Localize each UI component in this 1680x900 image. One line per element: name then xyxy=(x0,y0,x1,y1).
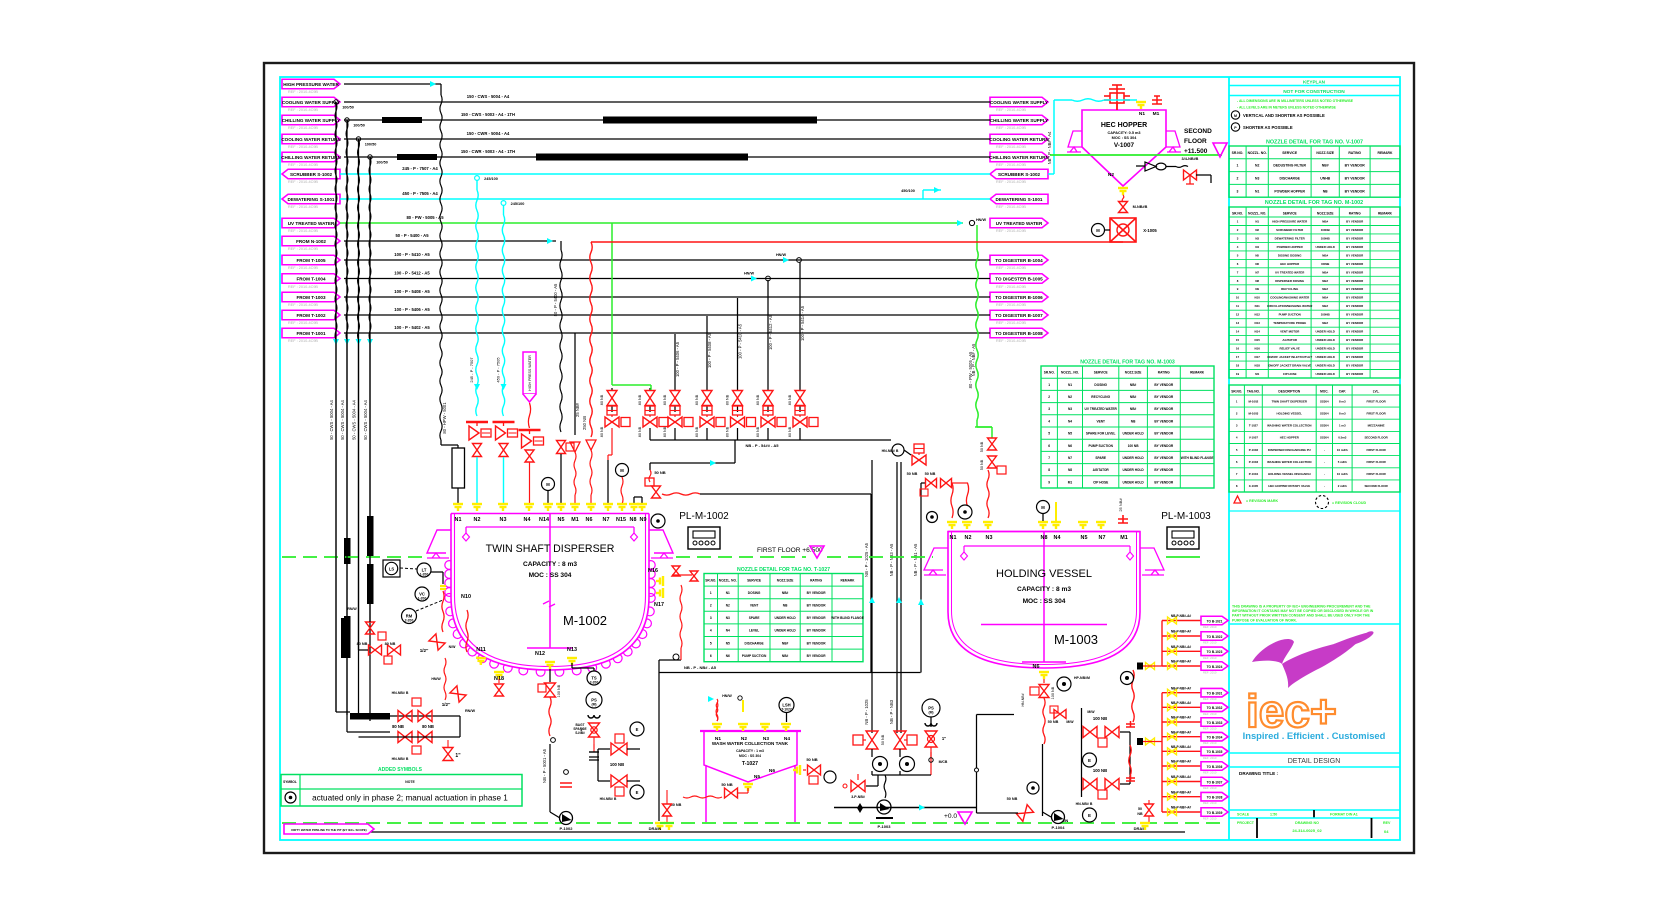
stack feeder flex hoses xyxy=(1126,721,1135,727)
svg-text:M: M xyxy=(620,468,624,473)
nozzle N16 N17 xyxy=(656,576,663,586)
svg-text:N16: N16 xyxy=(648,568,658,574)
svg-text:N8: N8 xyxy=(1255,279,1259,283)
svg-text:NB - P - NB3: NB - P - NB3 xyxy=(889,699,894,724)
svg-text:+0.0: +0.0 xyxy=(944,813,957,820)
svg-text:REF: 2010: REF: 2010 xyxy=(1203,771,1217,775)
svg-text:NB - P - NB# - A5: NB - P - NB# - A5 xyxy=(684,665,717,670)
svg-text:AGITATOR: AGITATOR xyxy=(1282,338,1298,342)
svg-text:P-1002: P-1002 xyxy=(560,826,574,831)
svg-text:P-1004: P-1004 xyxy=(1249,472,1259,476)
svg-text:LS: LS xyxy=(389,567,395,572)
svg-text:BY VENDOR: BY VENDOR xyxy=(1154,444,1174,448)
pump P-1002 xyxy=(560,812,573,825)
svg-text:DISCHARGE: DISCHARGE xyxy=(1280,177,1301,181)
svg-text:1 m3: 1 m3 xyxy=(1339,424,1346,428)
svg-text:NB#: NB# xyxy=(1130,395,1137,399)
svg-text:LVL.: LVL. xyxy=(1373,390,1380,394)
svg-text:N3: N3 xyxy=(1068,407,1072,411)
svg-text:N4: N4 xyxy=(726,629,730,633)
svg-text:TO B-1023: TO B-1023 xyxy=(1207,650,1223,654)
svg-text:HN-NB# B: HN-NB# B xyxy=(1076,802,1093,806)
hopper dust filter xyxy=(1104,85,1130,110)
line FROM T-1004 xyxy=(344,278,990,280)
svg-text:WITH BLIND FLANGE: WITH BLIND FLANGE xyxy=(1181,456,1214,460)
svg-text:= REVISION CLOUD: = REVISION CLOUD xyxy=(1332,501,1366,505)
svg-text:SR.NO.: SR.NO. xyxy=(1044,371,1055,375)
line label TO DIGESTER B-1005 (right) xyxy=(990,274,1048,284)
svg-text:BY VENDOR: BY VENDOR xyxy=(1346,330,1364,334)
svg-text:N6: N6 xyxy=(1068,444,1072,448)
svg-text:N3: N3 xyxy=(1255,236,1259,240)
svg-text:4: 4 xyxy=(1048,419,1050,423)
svg-text:CIRCULATION/WASHING WATER: CIRCULATION/WASHING WATER xyxy=(1267,304,1313,308)
svg-text:RN/W: RN/W xyxy=(347,607,357,611)
svg-text:10 m3/h: 10 m3/h xyxy=(1337,472,1348,476)
svg-text:NB#: NB# xyxy=(1322,287,1328,291)
nozzle M1 M-1002 xyxy=(570,504,580,511)
svg-text:SR.NO.: SR.NO. xyxy=(1232,151,1244,155)
svg-text:150 - CWS - 5003 - A4 - 1TH: 150 - CWS - 5003 - A4 - 1TH xyxy=(461,112,515,117)
red line rotary valve to disperser xyxy=(591,241,1123,243)
green riser x=977 xyxy=(976,225,978,250)
svg-text:-: - xyxy=(1324,460,1325,464)
stack row L2 xyxy=(1162,706,1201,708)
svg-text:= REVISION MARK: = REVISION MARK xyxy=(1246,499,1278,503)
svg-text:04: 04 xyxy=(1384,829,1389,834)
svg-text:REF: 2010: REF: 2010 xyxy=(1203,656,1217,660)
nozzle N8 M-1003 xyxy=(1038,522,1048,529)
svg-text:T-1027: T-1027 xyxy=(781,708,792,712)
svg-text:NB#: NB# xyxy=(1322,270,1328,274)
svg-text:HN-NB#: HN-NB# xyxy=(1021,693,1025,706)
svg-text:CAPACITY: 0.5 m3: CAPACITY: 0.5 m3 xyxy=(1108,131,1141,135)
svg-text:N8: N8 xyxy=(1068,468,1072,472)
nozzle N11 N18 N12 N13 xyxy=(476,658,486,666)
svg-text:HOLDING VESSEL DISCHARGI: HOLDING VESSEL DISCHARGI xyxy=(1268,472,1311,476)
svg-text:N9: N9 xyxy=(1255,287,1259,291)
svg-text:BY VENDOR: BY VENDOR xyxy=(807,604,827,608)
svg-text:1: 1 xyxy=(710,591,712,595)
svg-text:ON/OFF JACKET INLET/OUTLET: ON/OFF JACKET INLET/OUTLET xyxy=(1267,355,1312,359)
line FROM N-1002 xyxy=(344,240,556,242)
svg-text:PUMP SUCTION: PUMP SUCTION xyxy=(1089,444,1114,448)
valve column 3 x=675 xyxy=(674,334,676,388)
svg-text:M-1003: M-1003 xyxy=(1248,411,1258,415)
nozzle N8 M-1002 xyxy=(629,504,639,511)
stack feeders xyxy=(1137,663,1143,670)
hopper flush line xyxy=(1136,165,1145,167)
svg-text:1": 1" xyxy=(942,736,946,741)
svg-text:SPARE: SPARE xyxy=(749,616,760,620)
svg-text:COOLING WATER RETURN: COOLING WATER RETURN xyxy=(989,137,1049,142)
svg-text:1: 1 xyxy=(1048,383,1050,387)
red valve group far right of tank xyxy=(922,699,940,717)
svg-text:NB#: NB# xyxy=(782,641,789,645)
svg-text:HP-NB#M: HP-NB#M xyxy=(1074,676,1090,680)
svg-text:UNDER HOLD: UNDER HOLD xyxy=(1122,468,1144,472)
line COOLING WATER SUPPLY xyxy=(344,101,990,103)
svg-text:1/2″: 1/2″ xyxy=(442,702,451,707)
svg-text:DISPERSER DOSING: DISPERSER DOSING xyxy=(1275,279,1305,283)
line label FROM T-1004 xyxy=(282,274,340,284)
svg-text:REF : 2010-4C9B: REF : 2010-4C9B xyxy=(288,247,318,251)
svg-text:SERVICE: SERVICE xyxy=(1094,371,1108,375)
svg-text:TO B-1031: TO B-1031 xyxy=(1207,692,1223,696)
svg-text:COOLING WATER RETURN: COOLING WATER RETURN xyxy=(281,137,341,142)
svg-text:N4: N4 xyxy=(1255,245,1259,249)
svg-text:RATING: RATING xyxy=(1158,371,1171,375)
utility riser 4 xyxy=(368,155,372,159)
svg-text:N1: N1 xyxy=(1255,219,1259,223)
svg-text:REF : 2010-4C9B: REF : 2010-4C9B xyxy=(288,205,318,209)
svg-text:3: 3 xyxy=(1048,407,1050,411)
pump suction manifold xyxy=(871,771,873,775)
svg-text:UV TREATED WATER: UV TREATED WATER xyxy=(1275,270,1305,274)
cyan drop at x=503.5 xyxy=(501,201,506,206)
svg-text:RECYCLING: RECYCLING xyxy=(1091,395,1110,399)
svg-text:NB-P-NB#-A#: NB-P-NB#-A# xyxy=(1171,745,1192,749)
svg-text:BY VENDOR: BY VENDOR xyxy=(807,641,827,645)
svg-text:REF : 2010-4C9B: REF : 2010-4C9B xyxy=(288,229,318,233)
svg-text:NB-P-NB#-A#: NB-P-NB#-A# xyxy=(1171,660,1192,664)
svg-text:100NB: 100NB xyxy=(1321,228,1330,232)
svg-text:50 NB: 50 NB xyxy=(1007,797,1018,801)
svg-text:REF : 2010-4C9B: REF : 2010-4C9B xyxy=(288,126,318,130)
svg-text:10: 10 xyxy=(1236,296,1240,300)
LSH instrument xyxy=(779,698,794,713)
svg-text:SS304: SS304 xyxy=(1320,399,1329,403)
nozzle N2 M-1002 xyxy=(472,504,482,511)
small 50NB valve right xyxy=(1145,804,1154,816)
line label FROM T-1005 xyxy=(282,255,340,265)
nozzle N6 M-1003 xyxy=(1039,672,1049,679)
svg-text:CIP HOSE: CIP HOSE xyxy=(1093,480,1108,484)
svg-text:100/50: 100/50 xyxy=(353,124,365,128)
line label DEWATERING S-1001 (right) xyxy=(990,194,1048,204)
svg-text:N3: N3 xyxy=(500,517,507,523)
svg-text:N5: N5 xyxy=(558,517,565,523)
svg-text:100 - P - 5410 - A5: 100 - P - 5410 - A5 xyxy=(394,252,430,257)
svg-text:FIRST FLOOR: FIRST FLOOR xyxy=(1366,472,1386,476)
stack row L1 xyxy=(1162,692,1201,694)
svg-text:HN/W: HN/W xyxy=(976,218,987,222)
svg-text:10 m3/h: 10 m3/h xyxy=(1337,448,1348,452)
svg-text:FIRST FLOOR: FIRST FLOOR xyxy=(1366,448,1386,452)
svg-text:80 NB: 80 NB xyxy=(788,426,792,437)
svg-text:TO DIGESTER B-1005: TO DIGESTER B-1005 xyxy=(995,276,1043,281)
svg-text:REF : 2010-4C9B: REF : 2010-4C9B xyxy=(996,145,1026,149)
tank nozzle N1 xyxy=(712,724,722,731)
svg-text:POWDER HOPPER: POWDER HOPPER xyxy=(1274,189,1305,193)
svg-text:N1: N1 xyxy=(1139,111,1145,117)
line label COOLING WATER RETURN xyxy=(282,134,340,144)
svg-text:BY VENDOR: BY VENDOR xyxy=(1346,304,1364,308)
svg-text:DOSING: DOSING xyxy=(748,591,761,595)
svg-text:N15: N15 xyxy=(1255,338,1261,342)
tank nozzle N4 xyxy=(781,724,791,731)
svg-text:5 m3/h: 5 m3/h xyxy=(1338,460,1347,464)
svg-text:HN-NB# B: HN-NB# B xyxy=(392,691,409,695)
svg-text:P-1003: P-1003 xyxy=(1249,460,1259,464)
svg-text:M: M xyxy=(1041,505,1045,510)
line label UV TREATED WATER (right) xyxy=(990,218,1048,228)
drop FROM N-1002 to N5 xyxy=(560,241,562,250)
svg-text:CHILLING WATER RETURN: CHILLING WATER RETURN xyxy=(989,155,1049,160)
svg-text:TO B-1037: TO B-1037 xyxy=(1207,780,1223,784)
svg-text:1-200: 1-200 xyxy=(420,573,429,577)
svg-text:0.5m3: 0.5m3 xyxy=(1338,436,1347,440)
second floor marker xyxy=(1050,154,1222,156)
svg-text:TO B-1021: TO B-1021 xyxy=(1207,619,1223,623)
svg-text:24-314-0025_02: 24-314-0025_02 xyxy=(1292,828,1322,833)
svg-text:NB - P - NB# - A4: NB - P - NB# - A4 xyxy=(1047,131,1052,164)
svg-text:80 NB: 80 NB xyxy=(756,394,760,405)
svg-text:NB - P - NB3 - A5: NB - P - NB3 - A5 xyxy=(889,543,894,576)
svg-text:BY VENDOR: BY VENDOR xyxy=(1346,364,1364,368)
svg-text:INFORMATION IT CONTAINS MAY NO: INFORMATION IT CONTAINS MAY NOT BE COPIE… xyxy=(1232,609,1374,613)
svg-text:BY VENDOR: BY VENDOR xyxy=(1154,395,1174,399)
svg-text:100/50: 100/50 xyxy=(376,161,388,165)
stack row U3 xyxy=(1162,650,1201,652)
svg-text:N5: N5 xyxy=(726,641,730,645)
svg-text:HIGH PRESS WATER: HIGH PRESS WATER xyxy=(528,355,532,391)
svg-text:N10: N10 xyxy=(461,594,471,600)
svg-text:N5: N5 xyxy=(1081,535,1088,541)
svg-text:SCRUBBER S-1002: SCRUBBER S-1002 xyxy=(290,172,333,177)
svg-text:(M): (M) xyxy=(591,703,596,707)
svg-text:50 NB: 50 NB xyxy=(806,757,817,762)
svg-text:DOSING: DOSING xyxy=(1094,383,1107,387)
svg-text:N4: N4 xyxy=(1054,535,1061,541)
svg-text:REF : 2010-4C9B: REF : 2010-4C9B xyxy=(288,266,318,270)
svg-text:1/2″: 1/2″ xyxy=(420,648,429,653)
svg-text:N12: N12 xyxy=(535,651,545,657)
svg-text:HN/W: HN/W xyxy=(431,677,441,681)
svg-text:BY VENDOR: BY VENDOR xyxy=(1346,219,1364,223)
svg-text:N16: N16 xyxy=(1255,347,1261,351)
svg-text:NOZZ.SIZE: NOZZ.SIZE xyxy=(1317,212,1334,216)
svg-text:M/W: M/W xyxy=(1087,710,1095,714)
svg-text:M: M xyxy=(1096,228,1100,233)
svg-text:100 NB: 100 NB xyxy=(557,684,561,697)
svg-text:HN/W: HN/W xyxy=(776,253,787,257)
svg-text:UNHB: UNHB xyxy=(1320,177,1330,181)
svg-text:HIGH PRESSURE WATER: HIGH PRESSURE WATER xyxy=(1272,219,1308,223)
svg-text:17: 17 xyxy=(1236,355,1240,359)
svg-text:UV TREATED WATER: UV TREATED WATER xyxy=(288,221,335,226)
svg-text:-: - xyxy=(1324,448,1325,452)
svg-text:FLOOR: FLOOR xyxy=(1184,138,1207,145)
svg-text:1:50: 1:50 xyxy=(1270,813,1277,817)
svg-text:NB-P-NB#-A#: NB-P-NB#-A# xyxy=(1171,806,1192,810)
riser top valves xyxy=(892,444,904,456)
nozzle N9 M-1002 xyxy=(637,504,647,511)
N6 discharge valves xyxy=(1043,679,1045,683)
svg-text:N2: N2 xyxy=(1068,395,1072,399)
svg-text:UNDER HOLD: UNDER HOLD xyxy=(1316,330,1335,334)
svg-text:SPARE: SPARE xyxy=(1095,456,1106,460)
svg-text:BY VENDOR: BY VENDOR xyxy=(1346,236,1364,240)
svg-text:PL-M-1003: PL-M-1003 xyxy=(1161,511,1211,522)
svg-text:11: 11 xyxy=(1236,304,1239,308)
svg-text:TO DIGESTER B-1007: TO DIGESTER B-1007 xyxy=(995,313,1043,318)
svg-text:25 NB#: 25 NB# xyxy=(575,402,580,417)
valve column 4 x=707 xyxy=(706,316,708,388)
svg-text:50 - CWS - 5004 - A4: 50 - CWS - 5004 - A4 xyxy=(352,399,357,439)
svg-text:REF : 2010-4C9B: REF : 2010-4C9B xyxy=(288,321,318,325)
svg-text:REF : 2010-4C9B: REF : 2010-4C9B xyxy=(996,180,1026,184)
svg-text:PL-M-1002: PL-M-1002 xyxy=(679,511,729,522)
left pipe run under M-1003 xyxy=(977,714,1015,716)
svg-text:actuated only in phase 2; manu: actuated only in phase 2; manual actuati… xyxy=(312,794,508,803)
svg-text:NOZZLE DETAIL FOR TAG NO. M-10: NOZZLE DETAIL FOR TAG NO. M-1002 xyxy=(1265,200,1363,206)
svg-text:REMARK: REMARK xyxy=(1190,371,1205,375)
svg-text:HEC HOPPER: HEC HOPPER xyxy=(1280,262,1300,266)
svg-text:REMARK: REMARK xyxy=(1378,212,1393,216)
svg-text:NOZZ.SIZE: NOZZ.SIZE xyxy=(1125,371,1142,375)
line label FROM N-1002 xyxy=(282,236,340,246)
svg-text:N2: N2 xyxy=(965,535,972,541)
nozzle N14 M-1002 xyxy=(543,504,553,511)
svg-text:VERTICAL AND SHORTER AS POSSIB: VERTICAL AND SHORTER AS POSSIBLE xyxy=(1243,113,1325,118)
svg-text:ON/OFF JACKET DRAIN VALVE: ON/OFF JACKET DRAIN VALVE xyxy=(1268,364,1311,368)
line label CHILLING WATER SUPPLY xyxy=(282,115,340,125)
utility riser 3 xyxy=(356,137,360,141)
svg-text:BY VENDOR: BY VENDOR xyxy=(1346,321,1364,325)
nozzle N1 M-1003 xyxy=(947,522,957,529)
green branch to cluster xyxy=(611,223,613,385)
drop to M1 from T-1001 line xyxy=(574,333,576,435)
svg-text:N2: N2 xyxy=(474,517,481,523)
pump P-1003 xyxy=(877,800,891,814)
svg-text:- ALL LEVELS ARE IN METERS UNL: - ALL LEVELS ARE IN METERS UNLESS NOTED … xyxy=(1237,106,1337,110)
tank T-1027 WASH WATER COLLECTION TANK xyxy=(704,731,797,782)
svg-text:TO B-1022: TO B-1022 xyxy=(1207,635,1223,639)
svg-text:8 m3: 8 m3 xyxy=(1339,411,1346,415)
svg-text:5: 5 xyxy=(710,641,712,645)
svg-text:N2: N2 xyxy=(1255,164,1259,168)
svg-text:N4: N4 xyxy=(524,517,531,523)
dirty water pipeline label xyxy=(284,824,374,834)
svg-text:NB#: NB# xyxy=(782,654,789,658)
svg-text:REF: 2010: REF: 2010 xyxy=(1203,727,1217,731)
svg-text:80 NB: 80 NB xyxy=(638,426,642,437)
svg-text:WASHING WATER COLLECTION: WASHING WATER COLLECTION xyxy=(1267,424,1311,428)
3-P valve xyxy=(866,785,878,787)
svg-text:REF: 2010: REF: 2010 xyxy=(1203,625,1217,629)
50 NB pair below vessel xyxy=(1054,710,1066,719)
svg-text:NB-P-NB#-A#: NB-P-NB#-A# xyxy=(1171,645,1192,649)
svg-text:DISCHARGE: DISCHARGE xyxy=(745,641,764,645)
svg-text:S-NB#: S-NB# xyxy=(575,731,585,735)
svg-text:BY VENDOR: BY VENDOR xyxy=(1346,270,1364,274)
svg-text:UNDER HOLD: UNDER HOLD xyxy=(1316,245,1335,249)
svg-text:P-1002: P-1002 xyxy=(1249,448,1259,452)
svg-text:N5: N5 xyxy=(1255,253,1259,257)
nozzle N4 M-1003 xyxy=(1051,522,1061,529)
svg-text:T-1027: T-1027 xyxy=(742,761,758,767)
svg-text:MEZZANINE: MEZZANINE xyxy=(1368,424,1385,428)
red flex to right of N9 xyxy=(662,493,700,495)
svg-text:TWIN SHAFT DISPERSER: TWIN SHAFT DISPERSER xyxy=(486,543,615,555)
svg-text:M-NB#B: M-NB#B xyxy=(1133,205,1148,209)
svg-text:NB-P-NB#-A#: NB-P-NB#-A# xyxy=(1171,730,1192,734)
svg-text:BY VENDOR: BY VENDOR xyxy=(1345,177,1366,181)
svg-text:BY VENDOR: BY VENDOR xyxy=(807,591,827,595)
svg-text:8 m3: 8 m3 xyxy=(1339,399,1346,403)
tank legs xyxy=(705,765,707,822)
svg-text:8: 8 xyxy=(1048,468,1050,472)
svg-text:14: 14 xyxy=(1236,330,1240,334)
svg-text:N6: N6 xyxy=(1255,262,1259,266)
M above N8 xyxy=(1037,501,1050,514)
svg-text:NOT FOR CONSTRUCTION: NOT FOR CONSTRUCTION xyxy=(1283,89,1345,95)
svg-text:P-1004: P-1004 xyxy=(1052,825,1066,830)
svg-text:BY VENDOR: BY VENDOR xyxy=(1346,245,1364,249)
red valve to N-line xyxy=(851,781,865,792)
svg-text:DOSING DOSING: DOSING DOSING xyxy=(1278,253,1302,257)
svg-text:100 - P - 5414 - A5: 100 - P - 5414 - A5 xyxy=(800,305,805,341)
svg-text:VENT: VENT xyxy=(750,604,759,608)
svg-text:BY VENDOR: BY VENDOR xyxy=(1346,279,1364,283)
svg-text:NB#: NB# xyxy=(1322,279,1328,283)
svg-text:E: E xyxy=(636,727,639,732)
svg-text:6: 6 xyxy=(1048,444,1050,448)
svg-text:4: 4 xyxy=(710,629,712,633)
svg-text:SPARE FOR LEVEL: SPARE FOR LEVEL xyxy=(1086,432,1116,436)
svg-text:MOC : SS 304: MOC : SS 304 xyxy=(1023,598,1066,605)
svg-text:E: E xyxy=(1088,758,1091,763)
svg-text:TO B-1034: TO B-1034 xyxy=(1207,736,1223,740)
svg-text:100 - P - 5408 - A5: 100 - P - 5408 - A5 xyxy=(707,332,712,368)
svg-text:KEYPLAN: KEYPLAN xyxy=(1303,80,1326,85)
svg-text:UNDER HOLD: UNDER HOLD xyxy=(774,616,796,620)
svg-text:NB#: NB# xyxy=(1130,407,1137,411)
svg-text:REF : 2010-4C9B: REF : 2010-4C9B xyxy=(996,126,1026,130)
svg-text:SR.NO.: SR.NO. xyxy=(1231,390,1242,394)
svg-text:REF : 2010-4C9B: REF : 2010-4C9B xyxy=(996,303,1026,307)
line SCRUBBER S-1002 (cyan) xyxy=(340,173,990,175)
nozzle N1 M-1002 xyxy=(453,504,463,511)
svg-text:N15: N15 xyxy=(616,517,626,523)
svg-text:BY VENDOR: BY VENDOR xyxy=(1346,313,1364,317)
svg-text:N2: N2 xyxy=(741,736,747,742)
svg-text:SECOND: SECOND xyxy=(1184,128,1212,135)
svg-text:BY VENDOR: BY VENDOR xyxy=(1346,355,1364,359)
svg-text:N12: N12 xyxy=(1255,313,1261,317)
svg-text:BY VENDOR: BY VENDOR xyxy=(1346,372,1364,376)
svg-text:TO B-1024: TO B-1024 xyxy=(1207,665,1223,669)
svg-text:50 - CWS - 5004 - A4: 50 - CWS - 5004 - A4 xyxy=(340,399,345,439)
svg-text:1: 1 xyxy=(1237,164,1239,168)
svg-text:UV TREATED WATER: UV TREATED WATER xyxy=(1085,407,1118,411)
svg-text:6: 6 xyxy=(710,654,712,658)
instrument left of N1 xyxy=(927,512,938,523)
svg-text:NB-P-NB#-A#: NB-P-NB#-A# xyxy=(1171,775,1192,779)
svg-text:BY VENDOR: BY VENDOR xyxy=(1154,480,1174,484)
svg-text:NOTE: NOTE xyxy=(405,780,415,784)
svg-text:NB: NB xyxy=(1131,419,1136,423)
svg-text:13: 13 xyxy=(1236,321,1240,325)
svg-text:SCRUBBER S-1002: SCRUBBER S-1002 xyxy=(998,172,1041,177)
svg-text:REMARK: REMARK xyxy=(841,578,856,582)
stack row U1 xyxy=(1162,620,1201,622)
pump vertical xyxy=(1042,744,1044,816)
tank feed lines xyxy=(708,696,714,702)
cluster collector xyxy=(650,439,891,441)
svg-text:UNDER HOLD: UNDER HOLD xyxy=(1316,338,1335,342)
